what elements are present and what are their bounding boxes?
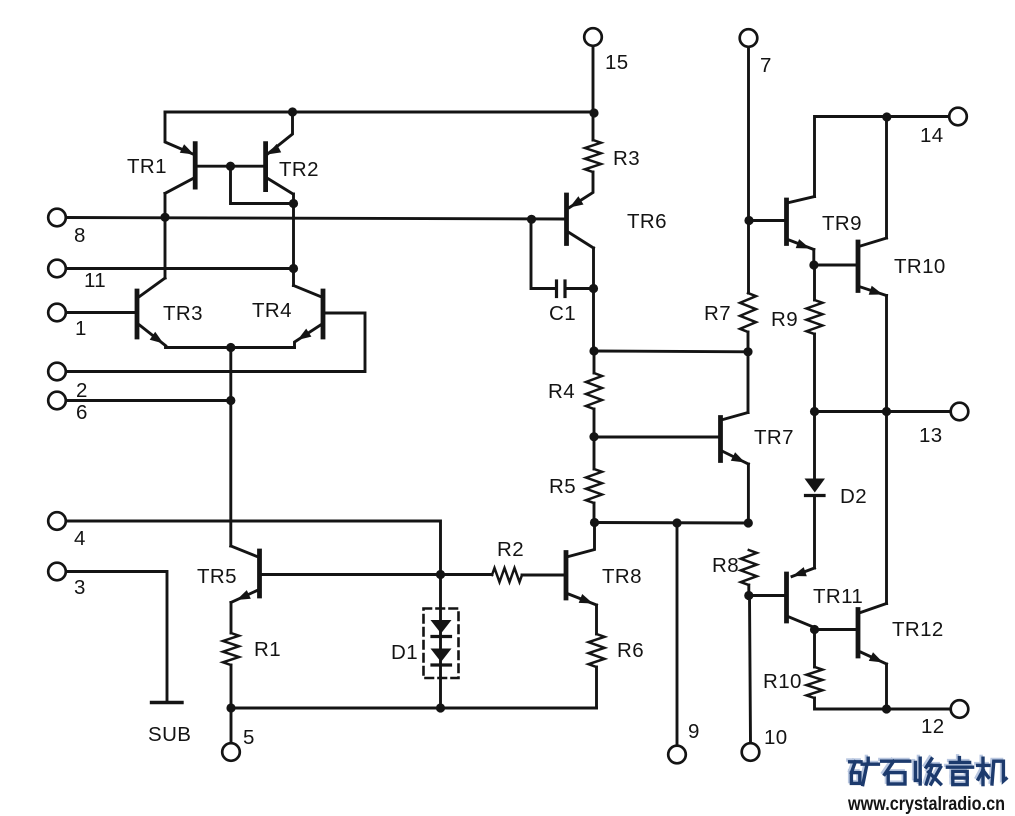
terminal pin 6 <box>48 392 66 410</box>
node junction <box>288 107 297 116</box>
wire pin14 row <box>815 117 950 197</box>
terminal pin 4 <box>48 512 66 530</box>
wire node to R10 <box>813 630 816 668</box>
transistor TR9 <box>787 197 815 250</box>
node junction <box>160 213 169 222</box>
wire TR1-TR3 collector column <box>164 193 167 278</box>
svg-text:TR3: TR3 <box>163 302 203 325</box>
svg-text:SUB: SUB <box>148 723 191 746</box>
node junction <box>810 407 819 416</box>
wire line 2 to TR4 base <box>66 313 365 372</box>
node junction <box>589 284 598 293</box>
svg-text:14: 14 <box>920 124 944 147</box>
svg-text:R9: R9 <box>771 308 798 331</box>
wire line 11 <box>66 267 294 270</box>
svg-text:R1: R1 <box>254 638 281 661</box>
wire TR5 emitter to R1 <box>230 603 233 634</box>
terminal pin 8 <box>48 209 66 227</box>
svg-text:8: 8 <box>74 224 86 247</box>
resistor R1 <box>223 633 239 665</box>
node junction <box>743 347 752 356</box>
terminal pin 7 <box>740 29 758 47</box>
transistor TR8 <box>566 523 597 606</box>
node junction <box>882 112 891 121</box>
wire node to R4 <box>593 351 596 373</box>
wire emitter column to TR5 <box>229 348 232 547</box>
svg-text:TR8: TR8 <box>602 565 642 588</box>
wire R6 to bottom bus <box>595 667 598 708</box>
wire node13 to D2 <box>813 412 816 479</box>
svg-text:3: 3 <box>74 576 86 599</box>
wire TR7 emitter to node <box>747 464 750 523</box>
terminal pin 12 <box>951 700 969 718</box>
wire TR1 TR2 base tie <box>197 165 264 168</box>
wire R2 to TR8 base <box>522 574 563 577</box>
node junction <box>882 704 891 713</box>
wire D2 to TR11 emitter <box>813 497 816 569</box>
wire node row to R7 bottom <box>594 350 748 354</box>
wire pin9 lead <box>676 523 679 746</box>
wire line 8 <box>66 218 564 220</box>
resistor R2 <box>492 568 522 582</box>
node junction <box>226 162 235 171</box>
wire R8 to TR11 base node <box>747 585 750 596</box>
wire D1 branch <box>439 575 442 709</box>
wire C1 right lead <box>567 287 594 290</box>
node junction <box>289 199 298 208</box>
svg-text:TR7: TR7 <box>754 426 794 449</box>
transistor TR7 <box>721 413 749 465</box>
svg-text:7: 7 <box>760 54 772 77</box>
svg-text:9: 9 <box>688 720 700 743</box>
wire TR2-TR4 collector column <box>292 194 295 286</box>
svg-text:TR11: TR11 <box>813 585 863 608</box>
resistor R6 <box>589 634 605 667</box>
svg-text:10: 10 <box>764 726 788 749</box>
svg-text:www.crystalradio.cn: www.crystalradio.cn <box>847 794 1005 815</box>
node junction <box>809 260 818 269</box>
wire line 4 <box>66 521 441 575</box>
wire line 3 to SUB <box>66 572 167 702</box>
watermark logo text (vector CJK) <box>848 756 877 782</box>
svg-text:TR10: TR10 <box>894 255 946 278</box>
terminal pin 9 <box>668 746 686 764</box>
wire TR10 base row <box>814 264 856 267</box>
resistor R7 <box>740 293 756 332</box>
svg-text:TR4: TR4 <box>252 299 292 322</box>
svg-text:5: 5 <box>243 726 255 749</box>
wire TR9 emitter to node <box>812 250 815 266</box>
node junction <box>436 570 445 579</box>
svg-text:D1: D1 <box>391 641 418 664</box>
svg-text:6: 6 <box>76 401 88 424</box>
wire R1 to node5 <box>230 665 233 708</box>
svg-text:R7: R7 <box>704 302 731 325</box>
node junction <box>744 216 753 225</box>
svg-text:4: 4 <box>74 527 86 550</box>
transistor TR5 <box>231 546 260 603</box>
wire R5 to node <box>593 503 596 523</box>
node junction <box>744 518 753 527</box>
wire R7 bottom to TR7 collector <box>747 332 750 413</box>
svg-text:TR12: TR12 <box>892 618 944 641</box>
wire TR11 collector node <box>813 628 816 630</box>
wire pin7 lead <box>747 47 750 293</box>
wire base tie to TR2 collector <box>231 166 294 203</box>
resistor R9 <box>807 300 823 334</box>
diode D1 (dual, dashed box) <box>424 609 459 679</box>
node junction <box>226 703 235 712</box>
wire node to R5 <box>593 437 596 470</box>
terminal pin 11 <box>48 260 66 278</box>
wire TR5 base row <box>262 573 492 576</box>
capacitor C1 <box>557 281 566 297</box>
transistor TR10 <box>858 238 887 296</box>
transistor TR6 <box>567 172 594 248</box>
wire R4 to node <box>593 409 596 437</box>
wire pin10 lead <box>750 596 751 744</box>
transistor TR1 <box>165 112 195 193</box>
wire TR11 base row <box>749 594 784 597</box>
svg-text:2: 2 <box>76 379 88 402</box>
transistor TR11 <box>787 567 815 627</box>
svg-text:TR5: TR5 <box>197 565 237 588</box>
node junction <box>226 343 235 352</box>
terminal pin 5 <box>222 743 240 761</box>
node junction <box>589 346 598 355</box>
wire line 6 <box>66 399 231 402</box>
wire TR12 base row <box>815 628 856 631</box>
wire R9 to node13 <box>813 334 816 412</box>
diode D2 <box>805 479 826 496</box>
terminal pin 3 <box>48 563 66 581</box>
wire pin5 lead <box>230 708 233 743</box>
node junction <box>589 432 598 441</box>
wire pin15 lead <box>592 46 595 140</box>
node junction <box>744 591 753 600</box>
wire TR8 emitter to R6 <box>595 605 598 634</box>
wire TR12 collector column <box>885 412 888 604</box>
transistor TR4 <box>294 286 324 348</box>
svg-text:C1: C1 <box>549 302 576 325</box>
terminal pin 14 <box>949 108 967 126</box>
svg-text:R6: R6 <box>617 639 644 662</box>
resistor R4 <box>586 373 602 409</box>
svg-text:TR2: TR2 <box>279 158 319 181</box>
svg-text:R5: R5 <box>549 475 576 498</box>
terminal pin 1 <box>48 304 66 322</box>
svg-text:13: 13 <box>919 424 943 447</box>
terminal pin 15 <box>584 28 602 46</box>
svg-text:11: 11 <box>84 269 106 292</box>
wire R10 to pin12 row <box>815 698 951 709</box>
wire TR10 emitter column <box>885 296 888 412</box>
resistor R8 <box>741 550 757 585</box>
wire TR10 collector column <box>885 117 888 238</box>
transistor TR12 <box>858 604 887 665</box>
node junction <box>590 518 599 527</box>
node junction <box>589 108 598 117</box>
wire diff pair emitter row <box>166 346 295 349</box>
wire TR6 collector column <box>592 248 595 351</box>
ground SUB bar <box>152 701 183 704</box>
svg-text:TR1: TR1 <box>127 155 167 178</box>
node junction <box>882 407 891 416</box>
transistor TR3 <box>137 278 166 348</box>
transistor TR2 <box>266 112 293 194</box>
wire TR7 base row <box>594 436 719 439</box>
svg-text:D2: D2 <box>840 485 867 508</box>
wire TR12 emitter to node12 <box>885 664 888 709</box>
svg-text:R4: R4 <box>548 380 575 403</box>
wire TR9 base row <box>749 219 784 222</box>
wire line 1 <box>66 311 135 314</box>
wire node to R9 <box>813 265 816 300</box>
node junction <box>226 396 235 405</box>
svg-text:R8: R8 <box>712 554 739 577</box>
svg-text:R3: R3 <box>613 147 640 170</box>
svg-text:1: 1 <box>75 317 87 340</box>
svg-text:R2: R2 <box>497 538 524 561</box>
node junction <box>527 215 536 224</box>
svg-text:R10: R10 <box>763 670 802 693</box>
terminal pin 13 <box>951 403 969 421</box>
wire pin13 row <box>815 410 951 413</box>
resistor R5 <box>586 469 602 503</box>
wire C1 branch <box>531 220 555 289</box>
wire TR8 collector node row <box>595 521 749 524</box>
terminal pin 10 <box>742 743 760 761</box>
node junction <box>436 703 445 712</box>
svg-text:12: 12 <box>921 715 945 738</box>
svg-text:TR6: TR6 <box>627 210 667 233</box>
resistor R10 <box>807 667 823 698</box>
wire bottom bus <box>231 707 597 710</box>
node junction <box>289 264 298 273</box>
resistor R3 <box>585 140 601 172</box>
terminal pin 2 <box>48 363 66 381</box>
node junction <box>672 518 681 527</box>
svg-text:TR9: TR9 <box>822 212 862 235</box>
svg-text:15: 15 <box>605 51 629 74</box>
wire top rail <box>165 111 594 114</box>
node junction <box>810 625 819 634</box>
